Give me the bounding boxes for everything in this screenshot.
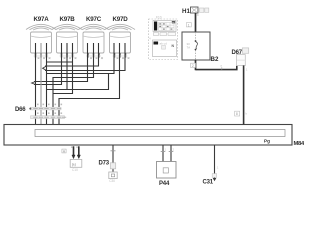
svg-text:ab cd: ab cd — [160, 41, 168, 45]
svg-text:C10: C10 — [72, 168, 78, 172]
svg-text:B2: B2 — [211, 56, 219, 63]
svg-text:a: a — [220, 64, 222, 68]
svg-text:a: a — [197, 13, 199, 17]
svg-text:K97B: K97B — [59, 16, 75, 23]
svg-text:D73: D73 — [99, 161, 110, 167]
svg-text:1: 1 — [165, 148, 167, 152]
svg-text:7A: 7A — [187, 46, 191, 50]
svg-text:D66: D66 — [15, 107, 26, 113]
svg-text:F10: F10 — [156, 16, 162, 20]
svg-text:1: 1 — [246, 68, 248, 72]
svg-text:K97C: K97C — [86, 16, 102, 23]
svg-text:C31: C31 — [203, 180, 214, 186]
svg-text:K97D: K97D — [112, 16, 128, 23]
svg-text:1: 1 — [188, 23, 190, 27]
svg-text:C30: C30 — [109, 179, 115, 183]
svg-text:8: 8 — [236, 112, 238, 116]
svg-text:2: 2 — [192, 64, 194, 68]
svg-text:P44: P44 — [159, 181, 170, 187]
svg-text:Pg: Pg — [264, 139, 270, 144]
svg-text:4: 4 — [149, 37, 151, 41]
svg-text:H1: H1 — [182, 8, 190, 15]
svg-text:K97A: K97A — [33, 16, 49, 23]
svg-text:M84: M84 — [294, 141, 305, 147]
svg-text:b: b — [246, 112, 248, 116]
svg-text:1: 1 — [217, 166, 219, 170]
svg-text:2: 2 — [173, 148, 175, 152]
